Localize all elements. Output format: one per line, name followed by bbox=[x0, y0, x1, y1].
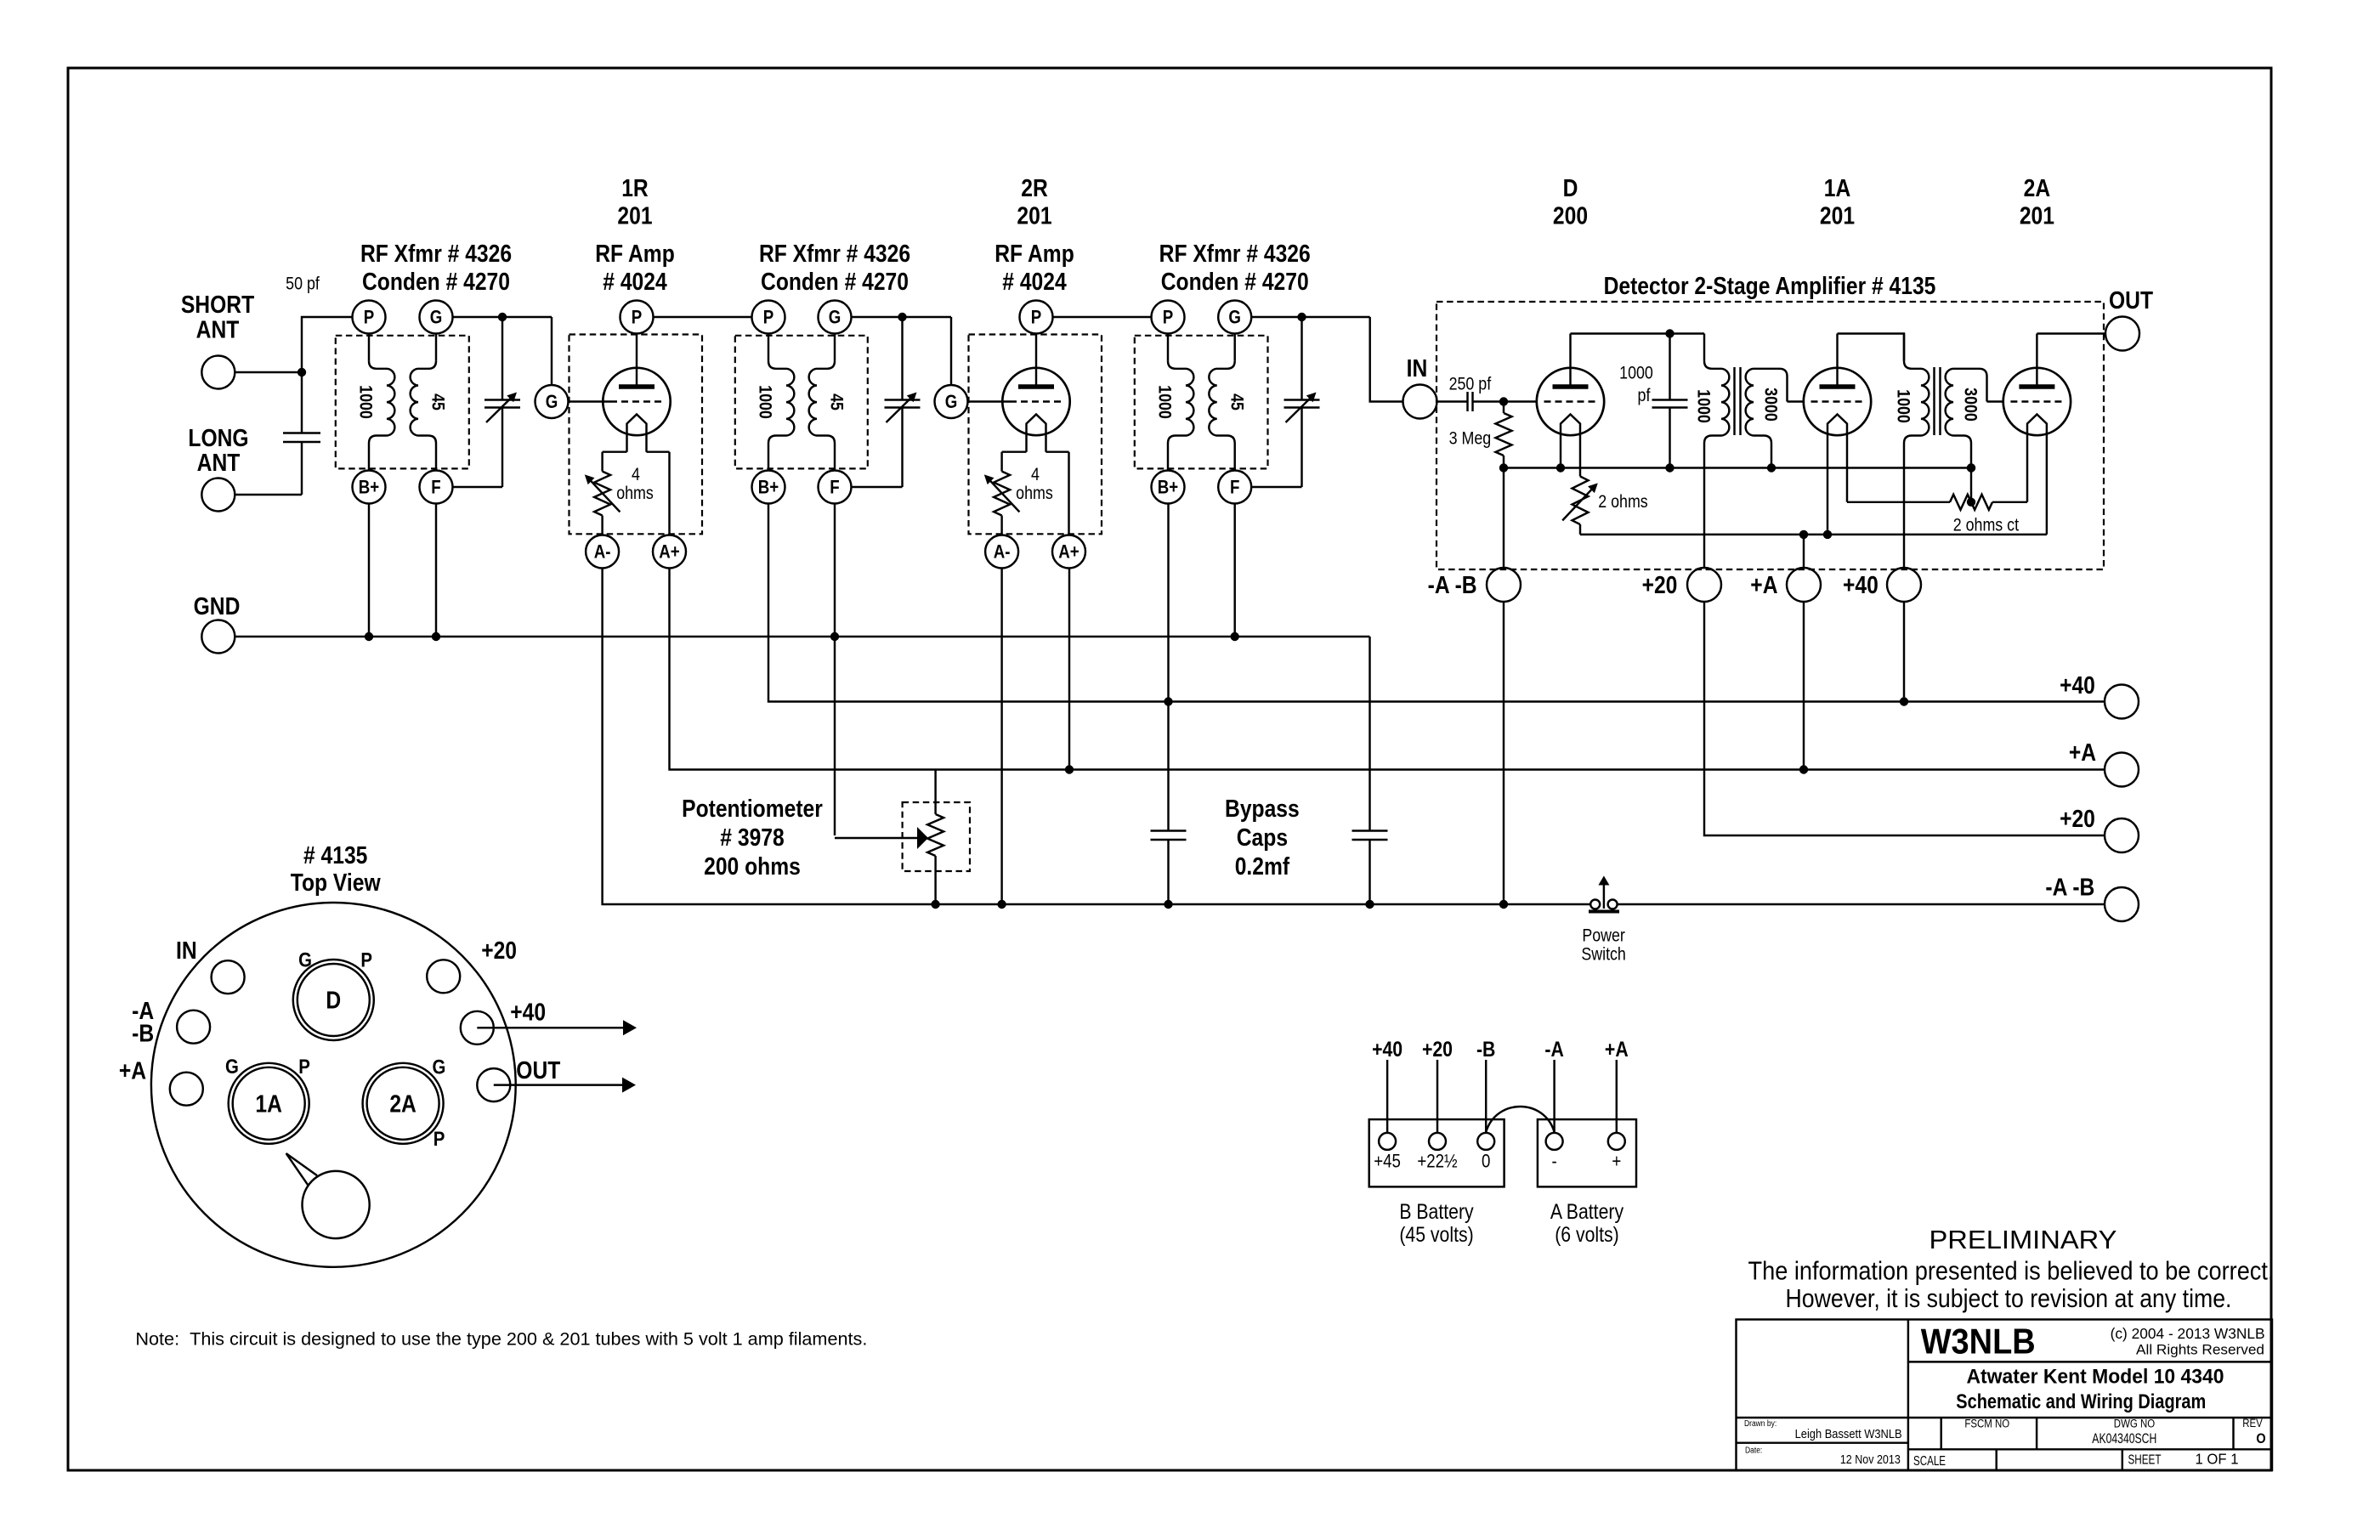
svg-text:AK04340SCH: AK04340SCH bbox=[2092, 1431, 2156, 1447]
node filament left leg to -A-B rail bbox=[1556, 463, 1565, 472]
wire 2A plate to OUT bbox=[2037, 332, 2105, 334]
svg-text:P: P bbox=[763, 308, 773, 328]
wire detector +A terminal down to +A rail bbox=[1803, 602, 1805, 770]
wire T5 primary bottom down to +40 terminal bbox=[1903, 444, 1905, 569]
svg-text:+: + bbox=[1612, 1152, 1621, 1172]
filament bracket of V1 bbox=[603, 450, 627, 452]
rheostat 4 ohms of V1 bbox=[601, 452, 603, 472]
svg-text:FSCM NO: FSCM NO bbox=[1964, 1418, 2009, 1430]
filament of V4 bbox=[1827, 415, 1847, 535]
terminal B+ of T3 bbox=[1167, 444, 1169, 471]
tube socket 2A (top view) bbox=[363, 1063, 444, 1144]
svg-text:RF Xfmr # 4326: RF Xfmr # 4326 bbox=[759, 240, 910, 267]
wire junction corner down to grid circle of V1 bbox=[551, 317, 552, 385]
terminal SHORT ANT bbox=[201, 356, 235, 389]
wire plate V2 to P of T3 bbox=[1053, 316, 1152, 318]
pointer wedge (top view) bbox=[286, 1153, 309, 1186]
plate bar of V1 bbox=[619, 384, 654, 389]
wire A+2 down to +A rail bbox=[1068, 569, 1070, 770]
svg-text:-A -B: -A -B bbox=[1428, 571, 1477, 598]
svg-text:+A: +A bbox=[2069, 739, 2096, 766]
wire B+3 down through +40 rail into bypass cap C4 bbox=[1167, 504, 1169, 831]
svg-text:Power: Power bbox=[1582, 926, 1625, 946]
svg-text:Note: This circuit is designe: Note: This circuit is designed to use th… bbox=[135, 1329, 867, 1350]
terminal -A -B of detector unit bbox=[1503, 468, 1504, 569]
svg-text:A+: A+ bbox=[1058, 542, 1079, 563]
terminal A+ of V1 bbox=[668, 452, 670, 535]
svg-text:2R: 2R bbox=[1021, 174, 1048, 201]
svg-text:Conden # 4270: Conden # 4270 bbox=[761, 268, 909, 295]
terminal +A right edge bbox=[2105, 753, 2139, 787]
grid dashed line of V1 bbox=[610, 400, 663, 402]
battery B2 (A Battery 6 volts) bbox=[1538, 1119, 1636, 1186]
svg-text:45: 45 bbox=[826, 393, 847, 410]
svg-text:+22½: +22½ bbox=[1417, 1152, 1457, 1172]
variable capacitor VC2 (tuning condenser) bbox=[898, 313, 906, 321]
terminal +20 of detector unit bbox=[1687, 568, 1721, 602]
svg-text:D: D bbox=[326, 987, 341, 1014]
svg-text:+A: +A bbox=[1605, 1037, 1629, 1061]
potentiometer R6 # 3978 200 ohms bbox=[903, 802, 970, 871]
wire detector +40 terminal to +40 rail bbox=[1903, 602, 1905, 702]
ground rail corner down to bypass cap C5 bbox=[1368, 637, 1370, 831]
node 1000pf cap top bbox=[1665, 329, 1674, 337]
terminal B+ of T1 bbox=[368, 444, 370, 471]
grid dashed line of V5 bbox=[2010, 400, 2063, 402]
svg-text:P: P bbox=[364, 308, 374, 328]
svg-text:B+: B+ bbox=[359, 478, 379, 498]
grid dashed line of V3 bbox=[1544, 400, 1597, 402]
wire plate line corner down to +20 terminal bbox=[1703, 444, 1705, 569]
svg-text:0.2mf: 0.2mf bbox=[1235, 852, 1290, 880]
svg-text:DWG NO: DWG NO bbox=[2114, 1418, 2156, 1430]
svg-text:RF Amp: RF Amp bbox=[994, 240, 1074, 267]
svg-text:+40: +40 bbox=[2060, 671, 2095, 699]
svg-text:Date:: Date: bbox=[1745, 1446, 1762, 1455]
wire IN to coupling cap bbox=[1437, 400, 1468, 402]
pin +40 (top view) bbox=[461, 1011, 494, 1045]
svg-text:A-: A- bbox=[594, 542, 611, 563]
svg-text:Caps: Caps bbox=[1237, 824, 1288, 851]
svg-text:+20: +20 bbox=[2060, 805, 2095, 832]
svg-text:-: - bbox=[1551, 1152, 1556, 1172]
svg-text:SHORT: SHORT bbox=[181, 291, 255, 318]
iron core of T4 bbox=[1733, 367, 1735, 435]
svg-text:F: F bbox=[830, 478, 839, 498]
svg-text:+20: +20 bbox=[1642, 571, 1678, 598]
filament of V1 bbox=[627, 415, 647, 452]
svg-text:201: 201 bbox=[1820, 202, 1855, 229]
svg-text:Drawn by:: Drawn by: bbox=[1744, 1418, 1776, 1428]
grid terminal G of V2 bbox=[935, 385, 968, 418]
svg-text:12 Nov 2013: 12 Nov 2013 bbox=[1840, 1452, 1901, 1466]
svg-text:+40: +40 bbox=[1372, 1037, 1402, 1061]
terminal +20 right edge bbox=[2105, 818, 2139, 852]
svg-text:2A: 2A bbox=[2024, 174, 2051, 201]
terminal GND bbox=[201, 620, 235, 654]
secondary coil 45 of T2 bbox=[834, 334, 836, 361]
wiper arrow of R6 bbox=[835, 837, 918, 839]
node antenna junction bbox=[297, 368, 306, 377]
+40 rail (B battery +45) bbox=[768, 504, 2105, 702]
svg-text:P: P bbox=[1031, 308, 1041, 328]
svg-text:1000: 1000 bbox=[355, 385, 376, 419]
capacitor C3 1000 pf (plate bypass) bbox=[1669, 334, 1670, 400]
svg-text:1 OF 1: 1 OF 1 bbox=[2196, 1452, 2239, 1468]
rheostat R4 2 ohms (detector filament) bbox=[1572, 477, 1589, 525]
svg-text:+A: +A bbox=[1750, 571, 1777, 598]
svg-text:Schematic and Wiring Diagram: Schematic and Wiring Diagram bbox=[1956, 1390, 2206, 1413]
svg-text:OUT: OUT bbox=[516, 1056, 561, 1084]
tube socket D (top view) bbox=[293, 960, 374, 1040]
svg-text:B+: B+ bbox=[1158, 478, 1178, 498]
wire antenna junction up to P of T1 bbox=[302, 317, 353, 372]
plate bar of V5 bbox=[2019, 384, 2054, 389]
svg-text:2 ohms: 2 ohms bbox=[1598, 492, 1648, 512]
svg-text:RF Xfmr # 4326: RF Xfmr # 4326 bbox=[360, 240, 512, 267]
svg-text:P: P bbox=[1163, 308, 1173, 328]
svg-text:201: 201 bbox=[2020, 202, 2054, 229]
svg-text:D: D bbox=[1563, 174, 1578, 201]
plate bar of V3 bbox=[1553, 384, 1589, 389]
svg-text:GND: GND bbox=[194, 592, 241, 620]
svg-text:1000: 1000 bbox=[1619, 363, 1653, 383]
wire detector plate line y=392.5 bbox=[1571, 332, 1705, 334]
primary coil 1000 of T4 bbox=[1704, 361, 1729, 444]
plate lead of V3 bbox=[1569, 334, 1571, 388]
svg-text:P: P bbox=[298, 1055, 310, 1078]
svg-text:(c) 2004 - 2013 W3NLB: (c) 2004 - 2013 W3NLB bbox=[2111, 1326, 2265, 1342]
svg-text:1000: 1000 bbox=[1154, 385, 1175, 419]
tube envelope V1 bbox=[603, 368, 670, 435]
svg-text:200: 200 bbox=[1553, 202, 1588, 229]
svg-text:LONG: LONG bbox=[188, 424, 248, 451]
svg-text:A Battery: A Battery bbox=[1550, 1199, 1624, 1223]
svg-text:+45: +45 bbox=[1374, 1152, 1401, 1172]
RF transformer T2 (RF Xfmr # 4326 / Conden # 4270) bbox=[735, 336, 868, 469]
wire long-ant to cap bbox=[235, 494, 302, 495]
svg-text:Top View: Top View bbox=[291, 869, 381, 896]
svg-text:+40: +40 bbox=[510, 999, 546, 1026]
svg-text:IN: IN bbox=[176, 937, 197, 964]
svg-text:# 3978: # 3978 bbox=[720, 824, 784, 851]
secondary coil 3000 of T5 bbox=[1946, 369, 1987, 468]
terminal LONG ANT bbox=[201, 478, 235, 512]
svg-text:pf: pf bbox=[1638, 386, 1651, 406]
svg-text:3000: 3000 bbox=[1960, 388, 1980, 422]
svg-text:201: 201 bbox=[617, 202, 652, 229]
bypass capacitor C5 0.2mf bbox=[1352, 829, 1388, 831]
svg-text:0: 0 bbox=[1482, 1152, 1490, 1172]
svg-text:# 4024: # 4024 bbox=[1002, 268, 1066, 295]
wire A-2 down to bottom rail bbox=[1000, 569, 1002, 905]
wire detector -A-B terminal down to bottom rail bbox=[1503, 602, 1504, 905]
wire G2 to junction row bbox=[852, 316, 952, 318]
filament of V5 bbox=[2027, 415, 2047, 535]
ground rail from GND terminal bbox=[235, 636, 1369, 637]
svg-text:B Battery: B Battery bbox=[1399, 1199, 1474, 1223]
filament bracket of V2 bbox=[1002, 450, 1027, 452]
detector-amplifier unit dashed box # 4135 bbox=[1436, 302, 2104, 569]
svg-text:RF Xfmr # 4326: RF Xfmr # 4326 bbox=[1159, 240, 1311, 267]
node center tap bbox=[1967, 498, 1975, 507]
svg-text:O: O bbox=[2256, 1431, 2265, 1447]
grid terminal G of V1 bbox=[535, 385, 569, 418]
terminal -A -B right edge bbox=[2105, 887, 2139, 921]
wire G1 to junction row bbox=[453, 316, 552, 318]
+A rail bbox=[670, 569, 2105, 770]
svg-text:G: G bbox=[945, 393, 958, 413]
svg-text:+20: +20 bbox=[481, 937, 517, 964]
svg-text:-B: -B bbox=[132, 1020, 154, 1047]
svg-text:+20: +20 bbox=[1422, 1037, 1453, 1061]
svg-text:250 pf: 250 pf bbox=[1449, 374, 1492, 394]
terminal A- of V2 bbox=[985, 535, 1018, 569]
svg-text:1000: 1000 bbox=[755, 385, 775, 419]
svg-text:ANT: ANT bbox=[196, 316, 240, 343]
primary coil 1000 of T5 bbox=[1904, 361, 1929, 444]
svg-text:Atwater Kent Model 10 4340: Atwater Kent Model 10 4340 bbox=[1966, 1365, 2224, 1388]
svg-text:2 ohms ct: 2 ohms ct bbox=[1953, 515, 2020, 535]
wire secondary T5 to grid of 2A bbox=[1987, 400, 2003, 402]
iron core of T5 bbox=[1933, 367, 1935, 435]
svg-text:G: G bbox=[298, 948, 312, 971]
RF transformer T3 (RF Xfmr # 4326 / Conden # 4270) bbox=[1135, 336, 1268, 469]
svg-text:Potentiometer: Potentiometer bbox=[682, 795, 823, 822]
svg-text:-A: -A bbox=[1544, 1037, 1564, 1061]
pilot lamp circle (top view) bbox=[303, 1171, 370, 1238]
resistor R3 3 Meg (grid leak) bbox=[1503, 402, 1504, 414]
pin OUT (top view) bbox=[477, 1068, 510, 1101]
battery B1 (B Battery 45 volts) bbox=[1369, 1119, 1504, 1186]
plate terminal P of V1 on top row bbox=[620, 301, 654, 334]
svg-text:PRELIMINARY: PRELIMINARY bbox=[1929, 1226, 2117, 1254]
pin IN (top view) bbox=[212, 960, 245, 994]
svg-text:3 Meg: 3 Meg bbox=[1449, 428, 1492, 449]
svg-text:Detector 2-Stage Amplifier # 4: Detector 2-Stage Amplifier # 4135 bbox=[1604, 272, 1936, 299]
terminal A- of V1 bbox=[586, 535, 619, 569]
svg-text:G: G bbox=[546, 393, 558, 413]
svg-text:F: F bbox=[431, 478, 440, 498]
-A-B rail inside detector box y=550.5 bbox=[1504, 467, 1971, 468]
svg-text:B+: B+ bbox=[758, 478, 779, 498]
svg-text:+40: +40 bbox=[1843, 571, 1878, 598]
wire secondary T4 to grid of 1A bbox=[1788, 400, 1805, 402]
pin +A (top view) bbox=[170, 1073, 203, 1106]
terminal +40 of detector unit bbox=[1887, 568, 1921, 602]
+20 rail from detector +20 terminal bbox=[1704, 602, 2105, 836]
bottom -A -B rail bbox=[603, 569, 1591, 905]
plate lead of V5 bbox=[2036, 334, 2037, 388]
svg-text:P: P bbox=[632, 308, 642, 328]
svg-text:Leigh Bassett W3NLB: Leigh Bassett W3NLB bbox=[1795, 1426, 1902, 1441]
filament of V2 bbox=[1027, 415, 1046, 452]
terminal B+ of T2 bbox=[768, 444, 769, 471]
plate bar of V2 bbox=[1018, 384, 1054, 389]
svg-text:RF Amp: RF Amp bbox=[595, 240, 675, 267]
grid dashed line of V2 bbox=[1010, 400, 1062, 402]
svg-text:ohms: ohms bbox=[616, 484, 654, 504]
tube envelope V2 bbox=[1002, 368, 1069, 435]
tube socket 1A (top view) bbox=[229, 1063, 309, 1144]
terminal F of T2 bbox=[834, 444, 836, 471]
RF transformer T1 (RF Xfmr # 4326 / Conden # 4270) bbox=[336, 336, 469, 469]
svg-text:# 4024: # 4024 bbox=[603, 268, 666, 295]
plate terminal P of V2 on top row bbox=[1020, 301, 1053, 334]
svg-text:1000: 1000 bbox=[1893, 389, 1913, 423]
strap wire -B to -A bbox=[1486, 1107, 1554, 1132]
terminal +40 right edge bbox=[2105, 685, 2139, 719]
node grid of detector bbox=[1499, 397, 1508, 405]
svg-text:+A: +A bbox=[119, 1057, 146, 1084]
unit outline circle bbox=[151, 903, 516, 1267]
plate bar of V4 bbox=[1820, 384, 1856, 389]
svg-text:# 4135: # 4135 bbox=[303, 841, 367, 869]
svg-text:50 pf: 50 pf bbox=[286, 274, 320, 294]
svg-text:-A -B: -A -B bbox=[2045, 874, 2094, 901]
svg-text:F: F bbox=[1230, 478, 1239, 498]
svg-text:Bypass: Bypass bbox=[1225, 795, 1300, 822]
svg-text:G: G bbox=[1228, 308, 1241, 328]
svg-text:45: 45 bbox=[428, 393, 448, 410]
svg-text:However, it is subject to revi: However, it is subject to revision at an… bbox=[1786, 1284, 2232, 1313]
svg-text:ohms: ohms bbox=[1016, 484, 1053, 504]
wire F3 down to ground rail bbox=[1233, 504, 1235, 637]
title block bbox=[1737, 1320, 2273, 1471]
variable capacitor VC1 (tuning condenser) bbox=[498, 313, 507, 321]
secondary coil 45 of T1 bbox=[435, 334, 437, 361]
svg-text:IN: IN bbox=[1407, 354, 1428, 382]
terminal +A of detector unit bbox=[1803, 535, 1805, 569]
svg-text:G: G bbox=[829, 308, 841, 328]
svg-text:200 ohms: 200 ohms bbox=[704, 852, 801, 880]
power switch S1 bbox=[1590, 900, 1600, 909]
svg-text:OUT: OUT bbox=[2109, 286, 2154, 314]
wire corner down to IN terminal bbox=[1370, 317, 1402, 402]
svg-text:A-: A- bbox=[994, 542, 1011, 563]
capacitor C1 50 pf (antenna series cap) bbox=[283, 432, 320, 433]
svg-text:P: P bbox=[433, 1128, 445, 1151]
svg-text:Conden # 4270: Conden # 4270 bbox=[362, 268, 510, 295]
svg-text:45: 45 bbox=[1227, 393, 1247, 410]
triode tube V2 (2R type 201, RF Amp # 4024) bbox=[969, 335, 1102, 535]
wire plate V1 to P of T2 bbox=[654, 316, 752, 318]
primary coil 1000 of T3 bbox=[1167, 334, 1169, 361]
wire F1 down to ground rail bbox=[435, 504, 437, 637]
pin -A -B (top view) bbox=[177, 1011, 210, 1044]
svg-text:(6 volts): (6 volts) bbox=[1555, 1222, 1619, 1246]
secondary coil 3000 of T4 bbox=[1746, 369, 1788, 468]
terminal OUT bbox=[2105, 317, 2139, 351]
wire G3 to IN corner bbox=[1251, 316, 1370, 318]
resistor R5 2 ohms ct (output filament, center tapped) bbox=[1847, 501, 1950, 503]
svg-text:W3NLB: W3NLB bbox=[1921, 1322, 2036, 1362]
triode tube V1 (1R type 201, RF Amp # 4024) bbox=[569, 335, 703, 535]
svg-text:ANT: ANT bbox=[197, 449, 241, 476]
wire B+1 down to ground rail bbox=[368, 504, 370, 637]
svg-text:201: 201 bbox=[1017, 202, 1051, 229]
grid dashed line of V4 bbox=[1811, 400, 1864, 402]
variable capacitor VC3 (tuning condenser) bbox=[1297, 313, 1306, 321]
svg-text:3000: 3000 bbox=[1760, 388, 1781, 422]
svg-text:G: G bbox=[430, 308, 443, 328]
svg-text:SHEET: SHEET bbox=[2128, 1452, 2161, 1467]
terminal F of T3 bbox=[1233, 444, 1235, 471]
wire F2 down through ground rail to potentiometer wiper bbox=[834, 504, 836, 836]
svg-text:2A: 2A bbox=[389, 1090, 416, 1118]
wire short-ant to junction bbox=[235, 371, 302, 373]
terminal F of T1 bbox=[435, 444, 437, 471]
svg-text:P: P bbox=[360, 948, 372, 971]
svg-text:Switch: Switch bbox=[1581, 944, 1626, 965]
terminal A+ of V2 bbox=[1068, 452, 1069, 535]
primary coil 1000 of T1 bbox=[368, 334, 370, 361]
pin +20 (top view) bbox=[427, 960, 460, 993]
svg-text:4: 4 bbox=[1031, 465, 1040, 485]
capacitor C2 250 pf (grid cap) bbox=[1466, 392, 1468, 411]
svg-text:G: G bbox=[433, 1056, 446, 1079]
secondary coil 45 of T3 bbox=[1233, 334, 1235, 361]
svg-text:1A: 1A bbox=[255, 1090, 282, 1118]
svg-text:SCALE: SCALE bbox=[1913, 1454, 1946, 1469]
wire 1A plate to T5 bbox=[1838, 334, 1905, 361]
primary coil 1000 of T2 bbox=[768, 334, 769, 361]
svg-text:1A: 1A bbox=[1824, 174, 1851, 201]
terminal IN bbox=[1403, 385, 1437, 419]
svg-text:The information presented is b: The information presented is believed to… bbox=[1748, 1256, 2275, 1285]
svg-text:4: 4 bbox=[632, 465, 640, 485]
svg-text:Conden # 4270: Conden # 4270 bbox=[1161, 268, 1309, 295]
svg-text:A+: A+ bbox=[659, 542, 679, 563]
filament return line y=628.9 bbox=[1580, 534, 2047, 535]
svg-text:-B: -B bbox=[1476, 1037, 1495, 1061]
svg-text:1000: 1000 bbox=[1693, 389, 1714, 423]
svg-text:REV: REV bbox=[2242, 1417, 2263, 1430]
filament of V3 bbox=[1561, 415, 1580, 477]
svg-text:(45 volts): (45 volts) bbox=[1399, 1222, 1473, 1246]
bypass capacitor C4 0.2mf bbox=[1151, 829, 1187, 831]
svg-text:All Rights Reserved: All Rights Reserved bbox=[2136, 1342, 2264, 1357]
svg-text:1R: 1R bbox=[621, 174, 649, 201]
plate lead of V4 bbox=[1836, 334, 1838, 388]
svg-text:G: G bbox=[225, 1055, 239, 1078]
rheostat 4 ohms of V2 bbox=[1000, 452, 1002, 472]
